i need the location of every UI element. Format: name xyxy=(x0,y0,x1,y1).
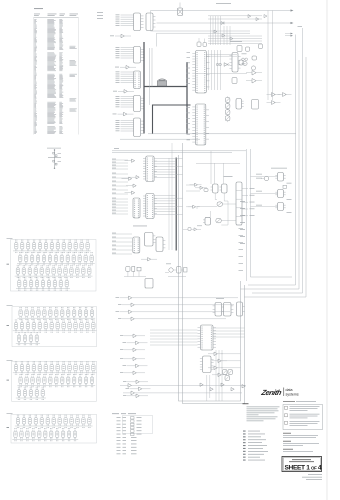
IC U22 xyxy=(133,237,140,253)
key switch row 8 xyxy=(13,362,97,375)
bus ring 4 xyxy=(241,60,300,289)
notes paragraph xyxy=(247,407,280,422)
wires U20 to bus xyxy=(154,159,182,215)
wire rail 2 xyxy=(120,138,200,140)
bus corridor lines xyxy=(149,48,151,105)
IC U32 xyxy=(275,203,285,211)
gates right 2 xyxy=(267,93,292,105)
buffer gate G1 xyxy=(110,34,131,38)
IC U31 xyxy=(275,190,285,198)
tall IC U36 xyxy=(236,182,255,225)
resistor network RN2 xyxy=(225,102,230,110)
gate cluster top xyxy=(214,15,267,41)
resistor pack RP2 xyxy=(216,218,222,222)
section label cluster A xyxy=(224,175,233,178)
crystal Y1 group xyxy=(124,267,146,277)
resistor network RN3 xyxy=(225,108,230,116)
small parts cluster xyxy=(237,44,263,70)
connector J1 xyxy=(134,71,141,89)
IC U40 xyxy=(213,303,224,317)
gates G22 G23 xyxy=(200,383,245,391)
bus wire vertical C xyxy=(175,158,177,251)
keyboard group 3 border xyxy=(12,361,97,401)
drawing number footer xyxy=(112,412,136,415)
keyboard group 2 border xyxy=(12,307,97,347)
IC U10 (big) xyxy=(192,51,209,94)
gates right of U43 xyxy=(208,352,227,377)
filter component FL1 xyxy=(158,79,167,86)
key switch row 9 xyxy=(17,374,95,387)
sheet title box xyxy=(282,457,322,472)
gates cluster A xyxy=(188,183,208,208)
connector J2 xyxy=(133,198,140,218)
IC U42 xyxy=(237,302,245,316)
bus wire vertical A xyxy=(143,42,145,134)
keyboard group 2 label xyxy=(7,324,10,327)
key switch row 10 xyxy=(16,387,46,400)
gates mid-left xyxy=(122,159,140,194)
wires cluster A xyxy=(186,151,240,225)
component box B1 xyxy=(145,279,153,289)
IC U4 xyxy=(134,96,144,112)
buffer gate G2 xyxy=(115,65,136,69)
sheet edge line xyxy=(326,0,328,500)
footer part numbers xyxy=(302,474,322,480)
capacitor pair xyxy=(216,63,221,65)
wire top 2 xyxy=(157,22,291,24)
wires gates to U43 xyxy=(150,330,198,345)
IC U23 xyxy=(145,233,156,247)
key switch row 5 xyxy=(17,307,95,320)
labels near U10 xyxy=(187,52,191,140)
Zenith logo xyxy=(260,388,299,397)
oscillator cluster xyxy=(165,264,187,277)
IC U12 xyxy=(229,53,240,73)
buffer gate G3 xyxy=(113,90,134,94)
gate with bubble xyxy=(224,63,229,67)
ring corner label xyxy=(298,25,303,28)
key switch row 12 xyxy=(12,428,78,441)
wires U43 area xyxy=(207,328,245,401)
wire top 3 xyxy=(151,30,251,32)
svg-text:systems: systems xyxy=(286,392,299,396)
keyboard group 4 label xyxy=(7,426,10,429)
wire stubs xyxy=(116,15,134,26)
gates bottom-left column 1 xyxy=(116,296,239,321)
IC U41 xyxy=(224,303,234,317)
bus wire horizontal A xyxy=(144,86,187,88)
gate G10 xyxy=(141,258,157,262)
IC U43 (big) xyxy=(198,325,217,350)
notes header xyxy=(243,402,249,405)
key switch row 2 xyxy=(17,252,95,265)
IC U20 xyxy=(143,156,157,182)
section label xyxy=(133,225,147,228)
diode D1 xyxy=(221,22,224,25)
bus ring 2 xyxy=(248,35,296,286)
wire rail 4 xyxy=(112,152,232,154)
resistor network RN4 xyxy=(225,115,230,123)
bus wire vertical B xyxy=(186,62,188,134)
flip-flop U33 xyxy=(211,184,219,193)
wire rail 1 xyxy=(148,133,296,135)
IC U3 xyxy=(134,47,144,64)
svg-text:Zenith: Zenith xyxy=(260,388,284,397)
IC U5 xyxy=(134,118,144,137)
component X1 xyxy=(252,100,259,110)
bus ring 1 xyxy=(252,28,303,293)
IC U24 xyxy=(156,237,165,252)
terminal list block xyxy=(117,416,153,455)
gates right 1 xyxy=(246,71,262,84)
bus ring 3 xyxy=(244,57,306,297)
key switch row 7 xyxy=(16,332,40,345)
net labels right column xyxy=(239,201,246,271)
double arrows xyxy=(285,34,291,36)
key switch row 4 xyxy=(16,278,70,291)
svg-text:SHEET 1 OF 4: SHEET 1 OF 4 xyxy=(285,464,322,471)
symbol legend list xyxy=(243,431,268,461)
label U12 top xyxy=(230,40,242,43)
wire stubs xyxy=(116,72,134,83)
parts identification box xyxy=(283,401,323,430)
label group top-left xyxy=(97,12,103,19)
IC U21 xyxy=(143,194,157,219)
bus descender 1 xyxy=(179,155,241,401)
resistor pack RP1 xyxy=(217,202,223,206)
key switch row 3 xyxy=(15,265,93,278)
arrow 2 xyxy=(291,22,294,24)
key switch row 6 xyxy=(13,320,97,333)
key switch row 11 xyxy=(15,415,93,428)
U10 detail wires xyxy=(196,50,247,90)
keyboard group 1 label xyxy=(7,263,10,266)
resistor row right of U12 xyxy=(242,54,248,65)
wire join xyxy=(156,33,158,46)
note blocks right xyxy=(283,433,319,452)
gate G20 xyxy=(120,384,246,388)
label top xyxy=(216,2,231,5)
wire stubs xyxy=(116,96,134,107)
bus ring 5 xyxy=(246,149,248,281)
keyboard group 3 label xyxy=(7,379,10,382)
gates bottom-left column 2 xyxy=(120,334,151,398)
IC U13 xyxy=(236,99,244,110)
wire stubs xyxy=(116,47,134,58)
resistor pack cluster xyxy=(223,370,233,381)
bus ring 6 xyxy=(251,149,293,277)
IC U37 xyxy=(203,217,211,225)
keyboard group 4 border xyxy=(11,414,97,443)
arrow 1 xyxy=(291,9,294,11)
bus wire L xyxy=(153,105,191,134)
box below U12 xyxy=(232,78,237,84)
transistor Q1 xyxy=(261,176,269,181)
wire top 1 xyxy=(151,10,291,12)
flip-flop U34 xyxy=(220,184,228,193)
parts above U10 xyxy=(197,38,207,47)
stub labels mid-left xyxy=(112,159,128,214)
small comps mid right xyxy=(183,226,202,231)
label above U40 xyxy=(216,297,224,300)
resistor R30 xyxy=(283,185,287,188)
wire top 4 xyxy=(157,32,251,34)
bus descender 2 xyxy=(183,143,245,404)
key switch legend symbol xyxy=(47,148,61,169)
IC U1 xyxy=(134,13,144,31)
IC U11 (big) xyxy=(192,104,209,145)
buffer gate G4 xyxy=(113,112,134,116)
wire rail 3 xyxy=(112,150,246,152)
wire stubs xyxy=(116,120,134,131)
labels cluster right xyxy=(271,167,287,170)
wire join 2 xyxy=(150,11,152,32)
parts list table xyxy=(34,8,79,134)
resistor network RN1 xyxy=(225,96,230,104)
IC U30 xyxy=(275,173,285,182)
gate G21 xyxy=(123,391,242,395)
keyboard group 1 border xyxy=(11,240,97,292)
IC U2 xyxy=(146,13,156,31)
IC U44 xyxy=(200,356,214,373)
wires cluster top xyxy=(208,11,273,101)
label rail xyxy=(114,147,119,150)
component F1 xyxy=(178,3,183,16)
key switch row 1 xyxy=(13,240,91,253)
stub labels lower xyxy=(112,233,132,254)
